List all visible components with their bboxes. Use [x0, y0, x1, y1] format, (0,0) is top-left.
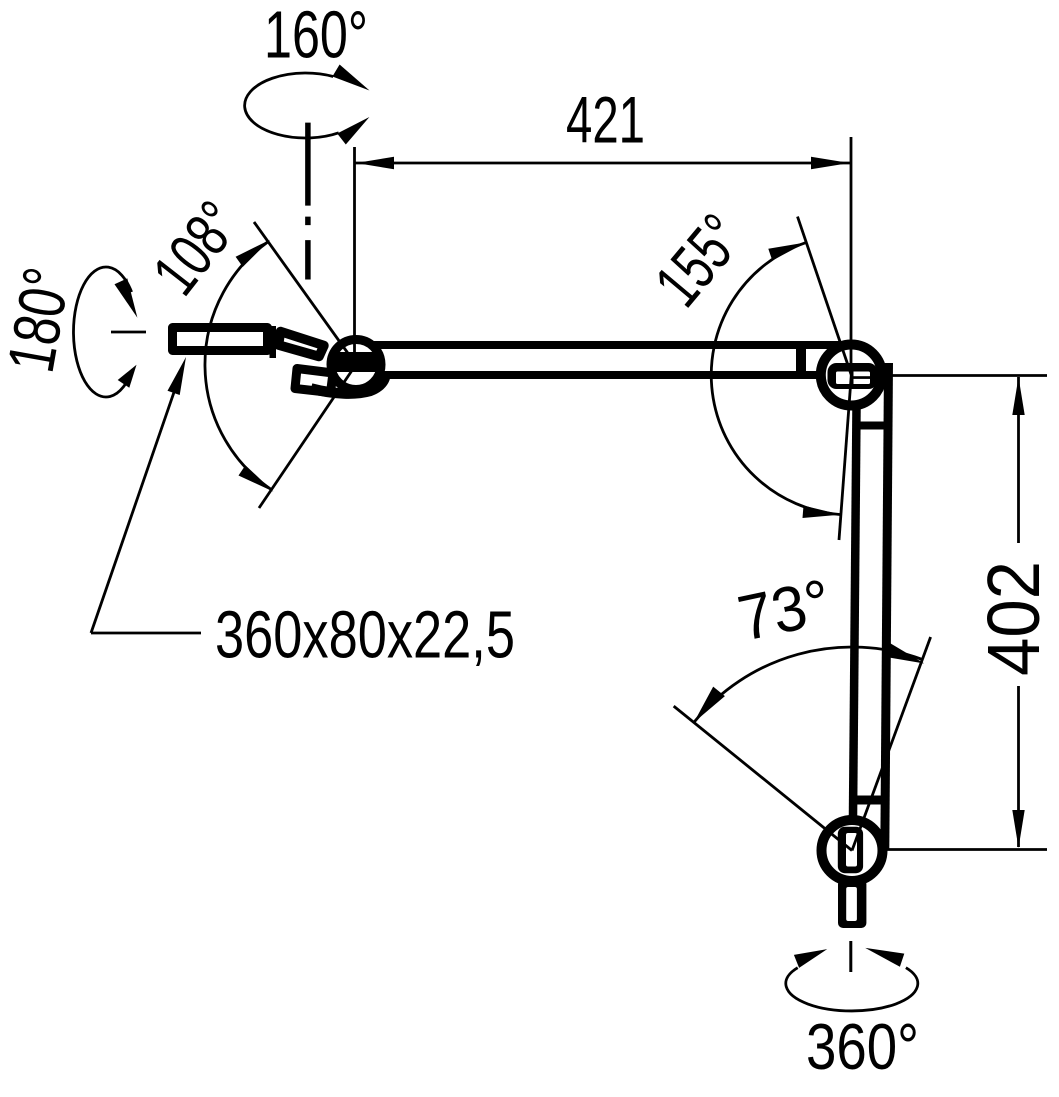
leader arrowhead: [168, 357, 187, 395]
dim 108 upper leg: [254, 222, 356, 365]
dim 421 dimension line: [355, 162, 852, 165]
dim 108 lower arrowhead: [239, 465, 274, 491]
arm end seam: [796, 341, 806, 373]
lower arm bottom rung: [852, 796, 889, 805]
svg-text:402: 402: [972, 561, 1055, 676]
dim 155 upper arrowhead: [768, 242, 806, 260]
dim 73 arc: [694, 647, 922, 722]
svg-text:360°: 360°: [806, 1010, 919, 1083]
dim 421 right extension line: [850, 137, 853, 366]
dim 402 bottom extension line: [887, 848, 1047, 851]
dim 421 right arrowhead: [811, 157, 850, 169]
svg-text:421: 421: [566, 83, 645, 157]
svg-text:360x80x22,5: 360x80x22,5: [215, 598, 515, 673]
dim 421 left extension line: [353, 147, 356, 372]
centerline dash-dot: [305, 123, 311, 280]
hinge upper link: [279, 332, 325, 357]
elbow joint circle: [821, 345, 882, 406]
dim 402 top extension line: [887, 374, 1047, 377]
rot 180 lower arrowhead: [118, 365, 137, 388]
upper arm bottom edge: [362, 371, 846, 379]
dim 108 upper arrowhead: [236, 240, 271, 267]
rot 360 axis tick: [849, 941, 852, 972]
dim 155 arc: [711, 242, 841, 514]
base joint slot: [838, 827, 863, 873]
left joint axle bar: [333, 352, 379, 372]
lower arm right edge: [885, 363, 889, 850]
left joint circle: [331, 340, 381, 390]
leader line horizontal: [91, 632, 201, 635]
elbow joint slot: [828, 363, 878, 389]
rot 180 ellipse: [73, 267, 132, 397]
dim 108 lower leg: [259, 365, 356, 509]
dim 73 right arrowhead: [884, 643, 924, 664]
dim 108 arc: [205, 242, 271, 490]
dim 73 left arrowhead: [694, 687, 725, 723]
lower arm top rung: [853, 422, 890, 430]
rot 180 axis tick: [111, 331, 146, 334]
upper arm top edge: [351, 341, 846, 349]
base stem: [838, 879, 866, 928]
rot 160 lower arrowhead: [337, 117, 369, 145]
monitor mount plate: [173, 328, 268, 351]
dim 73 right leg: [852, 637, 931, 851]
dim 73 left leg: [674, 706, 852, 850]
plate end bar: [270, 326, 277, 358]
hinge strap under joint: [311, 377, 385, 394]
dim 155 lower leg: [839, 375, 851, 540]
rot 360 left arrowhead: [794, 949, 827, 968]
base joint circle: [822, 820, 883, 881]
svg-text:160°: 160°: [264, 0, 368, 73]
elbow slot dividers: [851, 372, 854, 385]
rot 360 right arrowhead: [865, 948, 904, 967]
dim 402 bottom arrowhead: [1012, 810, 1024, 848]
rot 160 ellipse: [245, 73, 339, 138]
dim 402 top arrowhead: [1012, 377, 1024, 415]
rot 180 upper arrowhead: [115, 278, 138, 317]
hinge lower link: [295, 369, 333, 393]
dim 155 lower arrowhead: [803, 506, 841, 518]
rot 160 upper arrowhead: [332, 65, 369, 91]
rot 360 ellipse: [786, 968, 918, 1011]
dim 402 dimension line: [1017, 377, 1020, 543]
lower arm left edge: [853, 408, 857, 816]
leader line diagonal: [91, 369, 182, 633]
dim 155 upper leg: [798, 217, 852, 375]
dim 421 left arrowhead: [356, 157, 394, 169]
